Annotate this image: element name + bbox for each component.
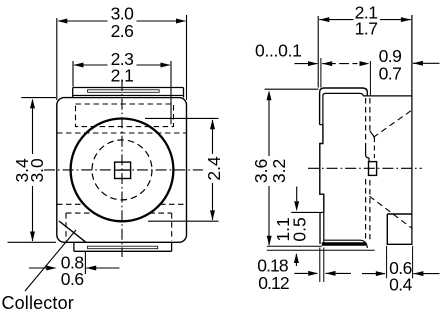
svg-text:0.4: 0.4 [389, 275, 413, 295]
svg-text:3.0: 3.0 [27, 158, 47, 183]
svg-text:2.4: 2.4 [204, 156, 224, 181]
svg-text:0.12: 0.12 [258, 273, 289, 293]
svg-text:Collector: Collector [2, 293, 74, 313]
svg-text:3.6: 3.6 [251, 159, 271, 183]
svg-text:0.5: 0.5 [289, 217, 309, 241]
svg-text:0.6: 0.6 [61, 269, 84, 289]
svg-text:3.2: 3.2 [269, 159, 289, 183]
svg-text:0...0.1: 0...0.1 [255, 41, 302, 61]
svg-text:0.7: 0.7 [379, 64, 402, 84]
svg-text:2.1: 2.1 [111, 66, 134, 86]
svg-text:1.7: 1.7 [355, 19, 378, 39]
svg-text:2.6: 2.6 [111, 21, 134, 41]
